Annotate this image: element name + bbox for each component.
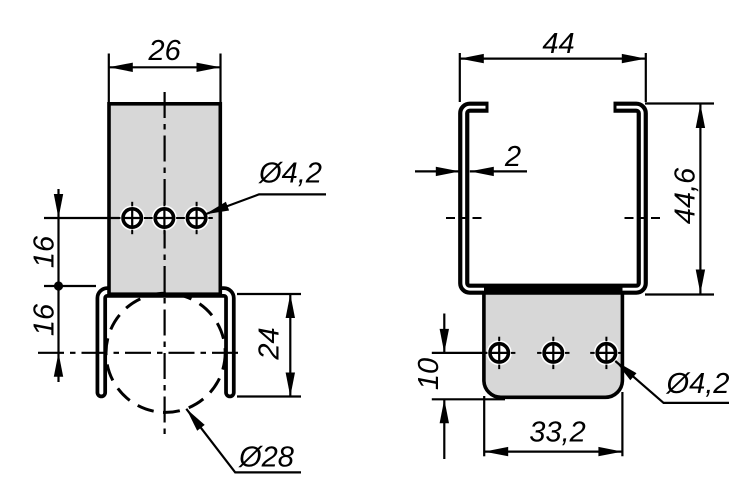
label Ø4,2 (right view) [666,372,729,396]
tube circle Ø28 (dashed) [106,293,225,412]
dimension 44,6: dimension line with arrows [699,104,701,294]
dimension chain 16/16 line [57,189,59,382]
dimension 24: extension lines [237,293,301,295]
dimension text 44,6 [674,168,698,224]
channel profile (U with hooks) [464,107,643,294]
dimension text 24 [258,328,278,359]
clamp strap (legs + top band) [101,292,230,393]
base plate (gray, right view) [484,289,623,397]
dimension 2: lines and arrows [415,170,460,172]
dimension 24: dimension line with arrows [289,294,291,397]
dimension text 16 (lower) [33,304,54,336]
dimension 44: extension lines [459,53,461,102]
horizontal centerline (left view, tube axis) [38,352,242,354]
dimension text 16 (upper) [33,236,54,268]
extension line at strap top (chain middle) [44,285,96,287]
dimension 33,2: dimension line with arrows [484,451,622,453]
leader Ø4,2 (left view) [205,194,326,214]
label Ø28 [238,446,293,468]
dimension text 10 [418,358,439,389]
dimension text 26 [148,40,180,61]
extension line at plate bottom (right view) [432,398,505,400]
hole 1 (left view) [116,202,148,234]
hole 2 (right view) [537,337,569,369]
dimension text 44 [543,33,574,53]
arrow down at holes row [54,194,63,218]
dimension 44: dimension line with arrows [460,57,646,59]
wall centerline ticks (left wall) [446,217,455,219]
leader Ø4,2 (right view) [615,361,729,403]
extension line through holes row (right view) [432,352,508,354]
dimension 26: extension lines [108,54,110,103]
wall centerline ticks (right wall) [625,217,634,219]
dimension 10: dimension line pieces with arrows [443,314,445,353]
vertical centerline (left view) [164,92,166,436]
hole 2 (left view) [148,202,180,234]
leader Ø28 [186,409,301,473]
dimension text 2 [505,146,521,166]
arrow up at tube axis [54,353,63,377]
extension line through holes row [44,217,123,219]
dimension 44,6: extension lines [645,102,714,104]
dimension 26: dimension line with arrows [109,66,221,68]
hole 3 (right view) [590,337,622,369]
hole 1 (right view) [483,337,515,369]
hole 3 (left view) [180,202,212,234]
dimension 33,2: extension lines [483,396,485,456]
body plate (gray, left view) [109,104,220,294]
chain dot [54,281,63,290]
label Ø4,2 (left view) [258,162,321,186]
dimension text 33,2 [530,421,585,445]
